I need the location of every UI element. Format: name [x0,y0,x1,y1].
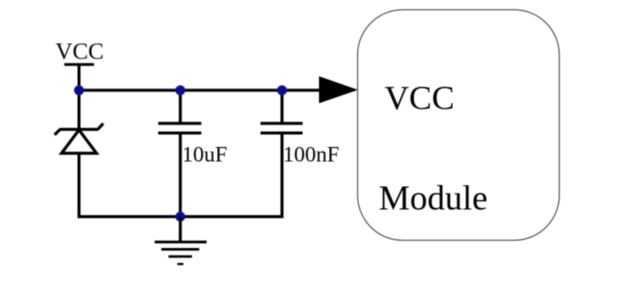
node B junction dot [175,85,185,95]
svg-text:100nF: 100nF [283,142,339,167]
svg-text:VCC: VCC [385,80,455,117]
zener diode D1 cathode bar [60,128,99,131]
module U1 box [358,10,560,241]
ground bar 4 [177,263,183,265]
ground bar 1 [155,241,207,244]
node D junction dot [175,212,185,222]
node C junction dot [277,85,287,95]
capacitor C1 bottom lead [179,133,182,217]
zener diode D1 right hook [98,124,103,130]
capacitor C1 bottom plate [158,132,201,135]
zener diode D1 left hook [55,129,60,134]
ground bar 3 [169,255,193,257]
svg-text:Module: Module [379,178,488,217]
wire bottom rail [78,215,284,218]
wire top rail [78,89,324,92]
zener diode D1 wire bottom [78,153,81,218]
svg-text:10uF: 10uF [182,141,227,166]
capacitor C2 bottom lead [281,133,284,217]
capacitor C1 top lead [179,90,182,123]
ground stub wire [179,217,182,242]
wire VCC bar to node A [78,65,81,91]
capacitor C2 top plate [261,122,303,125]
ground bar 2 [161,248,199,251]
svg-text:VCC: VCC [56,39,104,65]
zener diode D1 triangle [62,130,97,153]
arrow into module [319,76,358,103]
node A junction dot [74,85,84,95]
capacitor C1 top plate [158,122,201,125]
zener diode D1 wire top [78,90,81,131]
power symbol VCC bar [64,63,94,66]
capacitor C2 top lead [281,90,284,123]
capacitor C2 bottom plate [261,132,303,135]
